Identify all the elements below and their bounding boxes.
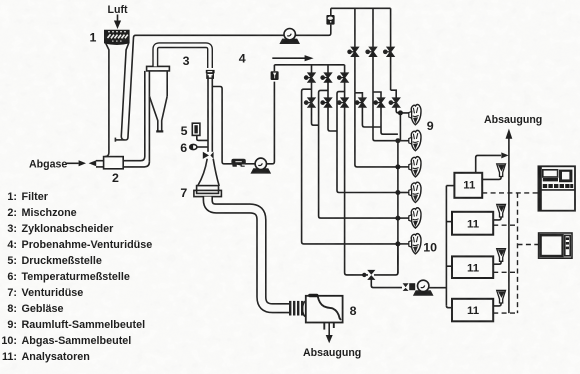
valve V1 [305,73,315,82]
suction duct with up arrow [506,129,513,314]
wire: column L2 [327,65,329,73]
analyzer U3 (11) [452,256,493,278]
wire: R2 drain [381,107,398,134]
pressure tap (component 5) [192,123,208,140]
rail A (exhaust sample header) [274,64,344,66]
vent funnel 3 [493,249,505,265]
vent funnel 4 [493,290,505,306]
valve V11 jog and body [373,92,381,98]
sample branch pipe to pump [212,87,232,164]
wire: descender to bag 3 [355,93,398,167]
wire: column R3 [390,8,392,47]
wire: L2 drain [328,107,337,131]
vent funnel 2 [493,204,505,220]
valve V8 [327,98,329,108]
analyzer U1 (11) [454,173,482,198]
display unit (right) [539,233,572,258]
flow meter [232,159,255,166]
mixing chamber (component 2 bottom) [96,157,149,169]
post-valve drains [312,107,398,134]
wire: column L1 [311,65,313,73]
valve V13 [367,270,375,280]
flexible coupling at blower inlet [290,301,302,316]
wire: Luft arrow [114,15,121,30]
evacuation line with valve [345,107,402,287]
pump P2 (sample pump) [252,158,270,173]
columns from rail B with valves [348,8,394,93]
thick pipe venturi to blower [208,197,289,309]
temperature probe (component 6) [190,144,208,149]
valve V6 [384,47,394,56]
blower (component 8) [302,294,342,330]
flow direction arrow above rail A [272,55,313,61]
wire: P1 outlet to dryer [296,25,331,36]
Absaugung arrow below blower [326,323,333,343]
wire: column R2 [372,8,374,47]
valve V3 [338,73,348,82]
legend list [1,191,152,363]
wire: L1 drain [312,107,319,125]
evacuation pump P3 [403,283,416,291]
cyclone outlet pipe to sample line [155,45,210,68]
wire: pump P3 to analyzer rail [429,287,447,289]
bag junction manifold [395,110,409,273]
columns from rail A with valves [305,65,348,98]
rail B (room air header) [331,7,391,9]
mixing tunnel (component 2) [105,43,129,156]
wire: descender to bag 5 [319,90,398,218]
valve V10 jog and body [355,93,363,98]
valve V2 [321,73,331,82]
venturi nozzle (component 7) [194,152,222,197]
dryer on room-air line [326,8,334,24]
sample bags 9/10 [409,104,421,124]
node dots [395,110,403,246]
vent funnel 1 [482,164,505,180]
recorder unit (top right) [538,166,575,210]
second-row valves [305,90,400,107]
wire: analyzer U1 vent to duct [476,152,509,172]
cyclone separator (component 3) [147,66,170,131]
sampling venturi (component 4) [206,70,215,78]
valve V4 [348,47,358,56]
main sample pipe down [208,75,212,152]
wire: pump P2 outlet riser [267,82,275,164]
valve V9 [344,98,346,108]
pump P1 (room air pump) [281,29,299,44]
riser to cyclone [145,71,150,162]
probe riser to pump line [126,35,284,140]
wire: descender to bag 1 [396,107,409,113]
wire: descender to bag 2 [373,92,398,141]
wire: column R1 [354,8,356,47]
wire: descender to bag 4 [337,92,398,193]
wire: R1 drain [362,107,381,127]
filter F1 (component 1) [104,30,130,45]
analyzer U4 (11) [452,299,493,322]
valve V5 [366,47,376,56]
signal dashed lines [482,193,538,313]
valve V12 jog and body [391,90,397,98]
Abgase inlet arrow [66,160,96,166]
wire: column L3 [344,65,346,73]
analyzer U2 (11) [452,212,493,235]
bag feed descenders [302,89,410,244]
valve V7 [311,98,313,108]
inline filter on riser [271,65,279,80]
analyzer feed rail [446,186,454,308]
wire: descender to bag 6 [302,89,398,244]
